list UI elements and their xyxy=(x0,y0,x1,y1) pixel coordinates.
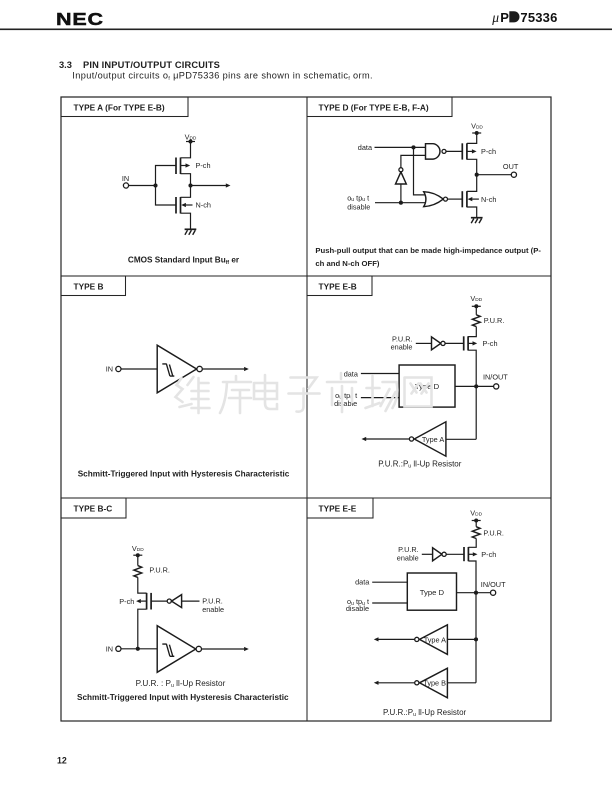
wire data to box cell6 xyxy=(372,581,407,583)
wire enable to inverter xyxy=(416,342,432,344)
gate NAND cell2 xyxy=(426,144,463,159)
wire VDD to resistor xyxy=(137,555,139,565)
wm char 1 (wei) xyxy=(176,377,210,413)
inverter enable cell5 (mirrored) xyxy=(167,595,199,608)
svg-text:Schmitt-Triggered Input with H: Schmitt-Triggered Input with Hysteresis … xyxy=(77,693,289,702)
svg-text:P.U.R.: P.U.R. xyxy=(484,316,505,325)
wire node to Type A buffer xyxy=(446,438,476,440)
wire gate to inverter cell5 xyxy=(151,600,167,602)
wire Type A output arrow cell6 xyxy=(374,637,415,641)
wire IN to schmitt xyxy=(121,648,157,650)
wire disable to box cell6 xyxy=(372,602,407,604)
junction IN/OUT node cell4 xyxy=(474,384,478,388)
svg-text:disable: disable xyxy=(347,202,370,211)
wm char 3 (dian) xyxy=(254,375,277,409)
table row divider 1 xyxy=(61,275,551,277)
svg-text:TYPE A (For TYPE E-B): TYPE A (For TYPE E-B) xyxy=(74,103,165,113)
title box TYPE D xyxy=(307,97,452,117)
table outer border xyxy=(61,97,551,721)
svg-text:P.U.R. : Pu ll-Up Resistor: P.U.R. : Pu ll-Up Resistor xyxy=(136,679,226,689)
wire schmitt output arrow xyxy=(202,367,248,371)
wire IN to schmitt xyxy=(121,368,157,370)
svg-text:μ: μ xyxy=(491,10,499,25)
wire disable to NOR xyxy=(375,202,427,204)
box Type D cell4 xyxy=(399,365,455,407)
wire node to N-ch drain xyxy=(181,186,191,198)
ground cell2 xyxy=(471,218,483,224)
junction data branch xyxy=(411,145,415,149)
wire P-ch source down to node xyxy=(468,350,476,439)
svg-text:disable: disable xyxy=(334,399,357,408)
title box TYPE B xyxy=(61,276,126,296)
svg-text:ch and N-ch OFF): ch and N-ch OFF) xyxy=(315,259,380,268)
wire resistor to P-ch cell6 xyxy=(468,539,476,548)
node VDD cell2 xyxy=(471,122,483,135)
wm char 6 (chang) xyxy=(366,376,398,411)
svg-text:P-ch: P-ch xyxy=(481,550,496,559)
schmitt trigger cell3 xyxy=(157,345,202,393)
wire resistor to P-ch xyxy=(468,327,476,337)
wire data to NAND xyxy=(375,146,426,148)
NEC logo xyxy=(56,10,104,29)
node IN cell1 xyxy=(122,174,129,188)
svg-text:TYPE E-B: TYPE E-B xyxy=(319,282,357,292)
buffer Type B cell6 xyxy=(415,668,448,698)
wire data branch to NOR input xyxy=(414,147,427,195)
title box TYPE E-E xyxy=(307,498,373,518)
svg-text:Type D: Type D xyxy=(420,588,445,597)
svg-text:Input/output circuits of μPD75: Input/output circuits of μPD75336 pins a… xyxy=(72,70,373,82)
wire disable branch to inverter xyxy=(400,184,402,203)
svg-text:P-ch: P-ch xyxy=(481,147,496,156)
junction IN node cell5 xyxy=(136,647,140,651)
wire IN to gate bus xyxy=(129,185,156,187)
svg-text:Type A: Type A xyxy=(424,635,446,644)
label output disable cell4 xyxy=(334,391,357,408)
svg-text:TYPE B-C: TYPE B-C xyxy=(74,504,113,514)
svg-text:TYPE D (For TYPE E-B, F-A): TYPE D (For TYPE E-B, F-A) xyxy=(319,103,429,113)
svg-text:Schmitt-Triggered Input with H: Schmitt-Triggered Input with Hysteresis … xyxy=(78,469,290,478)
junction Type A row cell6 xyxy=(474,637,478,641)
svg-text:VDD: VDD xyxy=(470,294,482,303)
wire schmitt output arrow cell5 xyxy=(202,647,249,651)
wm char 5 (shi) xyxy=(327,373,356,412)
node VDD cell5 xyxy=(132,544,144,557)
svg-text:P: P xyxy=(500,10,509,25)
label output disable cell6 xyxy=(346,597,369,613)
node IN/OUT cell6 xyxy=(481,580,506,596)
svg-text:VDD: VDD xyxy=(471,122,483,131)
buffer Type A cell6 xyxy=(415,625,448,655)
wire VDD to resistor cell6 xyxy=(475,521,477,527)
label PUR enable cell6 xyxy=(397,545,419,563)
title box TYPE E-B xyxy=(307,276,372,296)
svg-text:NEC: NEC xyxy=(56,10,104,29)
wire P-ch to OUT node xyxy=(467,159,477,174)
wm char 2 (ku) xyxy=(220,376,251,413)
svg-text:disable: disable xyxy=(346,604,369,613)
wire resistor to P-ch xyxy=(138,577,147,593)
svg-text:IN: IN xyxy=(106,644,113,653)
node OUT cell2 xyxy=(477,162,519,177)
svg-text:P-ch: P-ch xyxy=(196,161,211,170)
transistor P-ch cell4 xyxy=(464,336,478,350)
box Type D cell6 xyxy=(407,573,456,610)
title box TYPE B-C xyxy=(61,498,126,518)
wire box output to IN/OUT xyxy=(455,385,494,387)
svg-text:75336: 75336 xyxy=(520,10,557,25)
gate NOR cell2 xyxy=(424,192,463,207)
svg-text:IN: IN xyxy=(122,174,129,183)
svg-text:12: 12 xyxy=(57,756,67,766)
svg-text:IN/OUT: IN/OUT xyxy=(481,580,506,589)
table column divider xyxy=(306,97,308,721)
transistor N-ch cell2 xyxy=(462,191,479,207)
wire output arrow cell1 xyxy=(191,183,231,187)
inverter cell2 xyxy=(396,155,426,184)
wire VDD to P-ch drain xyxy=(181,142,191,158)
ground cell1 xyxy=(185,229,197,235)
svg-text:OUT: OUT xyxy=(503,162,519,171)
wire OUT node to N-ch drain xyxy=(467,175,477,192)
wire enable to inverter cell6 xyxy=(422,553,433,555)
wire Type A output arrow xyxy=(362,437,410,441)
label PUR enable cell5 xyxy=(202,597,224,614)
wire P-ch source down to IN row xyxy=(138,609,147,649)
svg-text:P-ch: P-ch xyxy=(119,597,134,606)
svg-text:P.U.R.: P.U.R. xyxy=(483,529,504,538)
transistor N-ch cell1 xyxy=(176,197,193,214)
transistor P-ch cell6 xyxy=(464,547,478,561)
node VDD cell4 xyxy=(470,294,482,309)
node VDD cell1 xyxy=(185,132,197,143)
wire VDD to resistor xyxy=(475,306,477,315)
transistor P-ch cell1 xyxy=(176,158,190,175)
svg-text:PIN INPUT/OUTPUT CIRCUITS: PIN INPUT/OUTPUT CIRCUITS xyxy=(83,60,220,70)
svg-text:Push-pull output that can be m: Push-pull output that can be made high-i… xyxy=(315,246,541,255)
svg-text:P.U.R.:Pu ll-Up Resistor: P.U.R.:Pu ll-Up Resistor xyxy=(378,460,462,470)
junction OUT node xyxy=(475,173,479,177)
svg-text:VDD: VDD xyxy=(132,544,144,553)
svg-text:N-ch: N-ch xyxy=(481,195,496,204)
svg-text:data: data xyxy=(355,577,370,586)
node IN/OUT cell4 xyxy=(483,372,508,389)
wm char 7 (wang) xyxy=(405,378,432,407)
svg-text:Type A: Type A xyxy=(422,435,444,444)
transistor P-ch cell5 (mirrored) xyxy=(136,593,151,610)
wire N-ch source to ground xyxy=(467,207,477,218)
wire Type B output arrow cell6 xyxy=(374,681,415,685)
junction gate bus xyxy=(153,183,157,187)
label output disable cell2 xyxy=(347,193,370,211)
wire box output to IN/OUT cell6 xyxy=(457,592,491,594)
wire node to Type A buffer cell6 xyxy=(447,638,476,640)
label PUR enable cell4 xyxy=(391,334,413,351)
wire gate bus cell1 xyxy=(156,166,177,206)
section heading 3.3 xyxy=(59,60,220,70)
svg-text:TYPE E-E: TYPE E-E xyxy=(319,504,357,514)
svg-text:data: data xyxy=(358,143,373,152)
svg-text:enable: enable xyxy=(397,554,419,563)
junction output node cell1 xyxy=(188,183,192,187)
resistor PUR cell6 xyxy=(472,527,480,539)
buffer Type A cell4 xyxy=(409,422,446,456)
wire disable to box xyxy=(361,397,399,399)
svg-text:N-ch: N-ch xyxy=(196,201,211,210)
svg-text:IN: IN xyxy=(106,365,113,374)
svg-text:3.3: 3.3 xyxy=(59,60,72,70)
part number uPD75336 xyxy=(491,10,557,25)
wire P-ch source down through nodes cell6 xyxy=(468,561,476,683)
inverter enable cell4 xyxy=(432,337,464,350)
node VDD cell6 xyxy=(470,508,482,522)
resistor PUR cell5 xyxy=(134,566,142,578)
transistor P-ch cell2 xyxy=(462,143,476,159)
watermark chinese characters xyxy=(176,373,432,413)
node IN cell5 xyxy=(106,644,121,653)
wire node to Type B buffer cell6 xyxy=(447,682,476,684)
schmitt trigger cell5 xyxy=(157,626,201,673)
wm char 4 (zi) xyxy=(289,378,320,412)
wire data to box xyxy=(361,373,399,375)
header rule xyxy=(0,29,612,31)
svg-text:P.U.R.: P.U.R. xyxy=(149,566,170,575)
wire N-ch source to ground xyxy=(181,213,191,229)
junction disable branch xyxy=(399,201,403,205)
svg-text:data: data xyxy=(344,369,359,378)
junction IN/OUT node cell6 xyxy=(474,591,478,595)
table row divider 2 xyxy=(61,497,551,499)
intro sentence xyxy=(72,70,373,82)
svg-text:IN/OUT: IN/OUT xyxy=(483,372,508,381)
svg-text:enable: enable xyxy=(202,605,224,614)
svg-text:CMOS Standard Input Buff er: CMOS Standard Input Buff er xyxy=(128,256,240,266)
inverter enable cell6 xyxy=(433,548,464,561)
resistor PUR cell4 xyxy=(472,315,480,327)
svg-text:P-ch: P-ch xyxy=(483,339,498,348)
wire P-ch source to node xyxy=(181,174,191,186)
svg-text:Type B: Type B xyxy=(423,679,446,688)
node IN cell3 xyxy=(106,365,121,374)
svg-text:TYPE B: TYPE B xyxy=(74,282,104,292)
svg-text:P.U.R.:Pu ll-Up Resistor: P.U.R.:Pu ll-Up Resistor xyxy=(383,708,467,718)
title box TYPE A xyxy=(61,97,188,117)
wire VDD to P-ch cell2 xyxy=(467,133,477,143)
svg-text:VDD: VDD xyxy=(470,508,482,517)
svg-text:enable: enable xyxy=(391,343,413,352)
svg-text:P.U.R.: P.U.R. xyxy=(398,545,419,554)
